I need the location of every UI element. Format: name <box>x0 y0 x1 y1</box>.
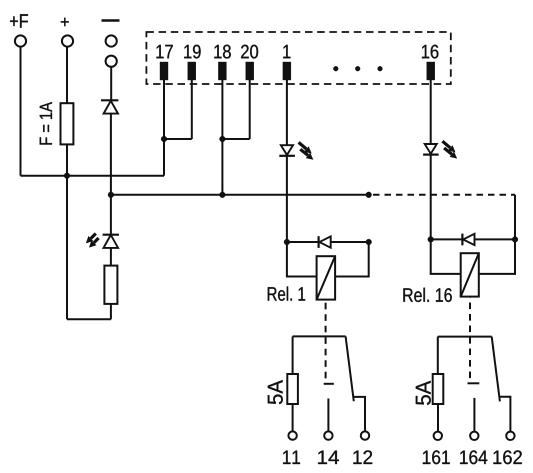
rel16 flyback top wire <box>431 238 515 240</box>
jumper 17-19 <box>164 138 192 140</box>
terminal 11 circle <box>288 431 296 439</box>
diode D3 cathode bar <box>461 234 463 246</box>
label 162 <box>493 450 521 464</box>
rel16 switch arm <box>492 337 500 402</box>
rel1 right stub <box>335 242 369 277</box>
label 5A rel1 <box>268 380 283 404</box>
pin 20 label <box>241 45 258 59</box>
wire fuse to terminal 161 <box>437 404 439 432</box>
wire loop to resistor <box>110 304 112 319</box>
wire terminal 14 <box>327 399 329 432</box>
LED3 triangle <box>425 144 437 154</box>
pin 20 <box>246 62 254 80</box>
bus2 horizontal solid <box>111 194 369 196</box>
wire LED2 down to rel1 branch <box>286 156 288 242</box>
rel1 left stub <box>287 242 317 277</box>
wire terminal 162 lead <box>500 397 511 432</box>
terminal + label <box>61 18 69 26</box>
label 164 <box>460 450 487 464</box>
rel16 drop to fuse <box>437 337 439 374</box>
rel16 left stub <box>431 239 461 274</box>
label Rel. 1 <box>268 287 305 301</box>
junction rel1 left <box>284 239 290 245</box>
junction bus2 / rel1 branch <box>366 192 372 198</box>
rel1 mechanical link dashed <box>325 300 327 379</box>
terminal +F label <box>10 14 28 27</box>
terminal 164 circle <box>470 432 478 440</box>
diode D1 cathode bar <box>101 99 118 101</box>
LED2 triangle <box>281 145 293 155</box>
rel1 flyback top wire <box>287 241 369 243</box>
rel1 switch arm <box>346 336 354 401</box>
rel16 contact top rail <box>438 336 492 338</box>
pin 18 label <box>214 45 230 59</box>
wire +F down to bus1 <box>20 47 22 176</box>
resistor R1 <box>104 266 117 304</box>
wire pin17 down <box>163 80 165 176</box>
diode D2 cathode bar <box>318 236 320 248</box>
terminal 161 circle <box>434 432 442 440</box>
fuse F=1A <box>61 103 74 144</box>
wire LED1 to bus2 <box>110 195 112 235</box>
label 12 <box>353 450 372 464</box>
label 161 <box>423 450 450 464</box>
terminal 14 circle <box>324 431 332 439</box>
pin 16 label <box>422 45 438 59</box>
LED1 cathode bar <box>103 234 119 236</box>
diode D3 triangle <box>463 234 474 245</box>
wire terminal 12 lead <box>354 397 365 432</box>
diode D1 triangle <box>104 101 118 114</box>
wire pin1 down <box>286 80 288 145</box>
wire terminal 164 <box>473 398 475 432</box>
wire diode to bus2 <box>110 114 112 195</box>
LED2 arrow b <box>306 153 314 160</box>
LED1 arrow a <box>86 236 93 243</box>
LED2 arrow a <box>304 146 312 153</box>
wire fuse to terminal 11 <box>292 404 294 431</box>
fuse 5A rel16 <box>433 374 444 404</box>
junction 17/19 jumper <box>161 136 167 142</box>
LED3 cathode bar <box>423 154 439 156</box>
relay coil K1 <box>317 256 336 299</box>
wire + to fuse <box>66 47 68 104</box>
terminal - label <box>102 19 120 21</box>
wire fuse down through bus1 to bottom loop <box>66 144 68 319</box>
pin 19 label <box>184 45 200 59</box>
rel16 mechanical link dashed <box>469 297 471 379</box>
label 14 <box>318 451 339 464</box>
wire bottom loop horizontal <box>67 318 111 320</box>
terminal 162 circle <box>506 432 514 440</box>
LED1 arrow b <box>89 240 96 247</box>
wire pin16 down <box>430 80 432 144</box>
pin 18 <box>218 62 226 80</box>
fuse 5A rel1 <box>287 374 298 404</box>
terminal +F circle <box>15 35 26 46</box>
wire pin19 down <box>191 80 193 139</box>
bus1 horizontal <box>21 175 165 177</box>
label Rel. 16 <box>403 288 451 302</box>
wire pin18 down <box>221 80 223 195</box>
dashed connector box <box>146 32 450 84</box>
rel1 drop to fuse <box>292 336 294 374</box>
jumper 18-20 <box>222 138 249 140</box>
junction rel1 right <box>366 239 372 245</box>
junction bus2 / minus column <box>108 192 114 198</box>
pin 1 <box>283 62 291 80</box>
terminal - circle lower <box>106 56 117 67</box>
terminal 12 circle <box>361 431 369 439</box>
wire - down to diode <box>110 67 112 101</box>
junction rel16 right <box>512 237 518 243</box>
junction rel16 left <box>428 237 434 243</box>
relay coil K16 <box>461 253 479 296</box>
wire LED3 down to rel16 branch <box>430 155 432 240</box>
ellipsis dots <box>333 66 338 71</box>
pin 17 <box>160 62 168 80</box>
junction bus1/fuse <box>64 173 70 179</box>
terminal + circle <box>62 35 73 46</box>
LED3 arrow a <box>448 145 456 152</box>
wire pin20 down <box>249 80 251 139</box>
rel16 contact 164 tick <box>468 382 480 384</box>
LED1 triangle <box>104 235 119 248</box>
pin 16 <box>427 62 435 80</box>
pin 17 label <box>156 45 172 58</box>
LED2 cathode bar <box>279 155 295 157</box>
diode D2 triangle <box>319 236 330 247</box>
terminal - circle upper <box>106 35 117 46</box>
label F = 1A <box>40 102 52 145</box>
label 5A rel16 <box>416 381 431 405</box>
bus2 drop to rel16 <box>514 195 516 240</box>
wire resistor to LED <box>110 248 112 266</box>
rel1 contact top rail <box>293 335 346 337</box>
junction bus2 / pin18 <box>220 192 226 198</box>
LED3 arrow b <box>450 152 458 159</box>
pin 19 <box>188 62 196 80</box>
rel16 right stub <box>479 239 515 274</box>
junction 18/20 jumper <box>220 136 226 142</box>
rel1 contact 14 tick <box>324 383 334 385</box>
bus2 dashed segment <box>373 194 515 196</box>
pin 1 label <box>283 45 290 58</box>
label 11 <box>283 451 300 464</box>
